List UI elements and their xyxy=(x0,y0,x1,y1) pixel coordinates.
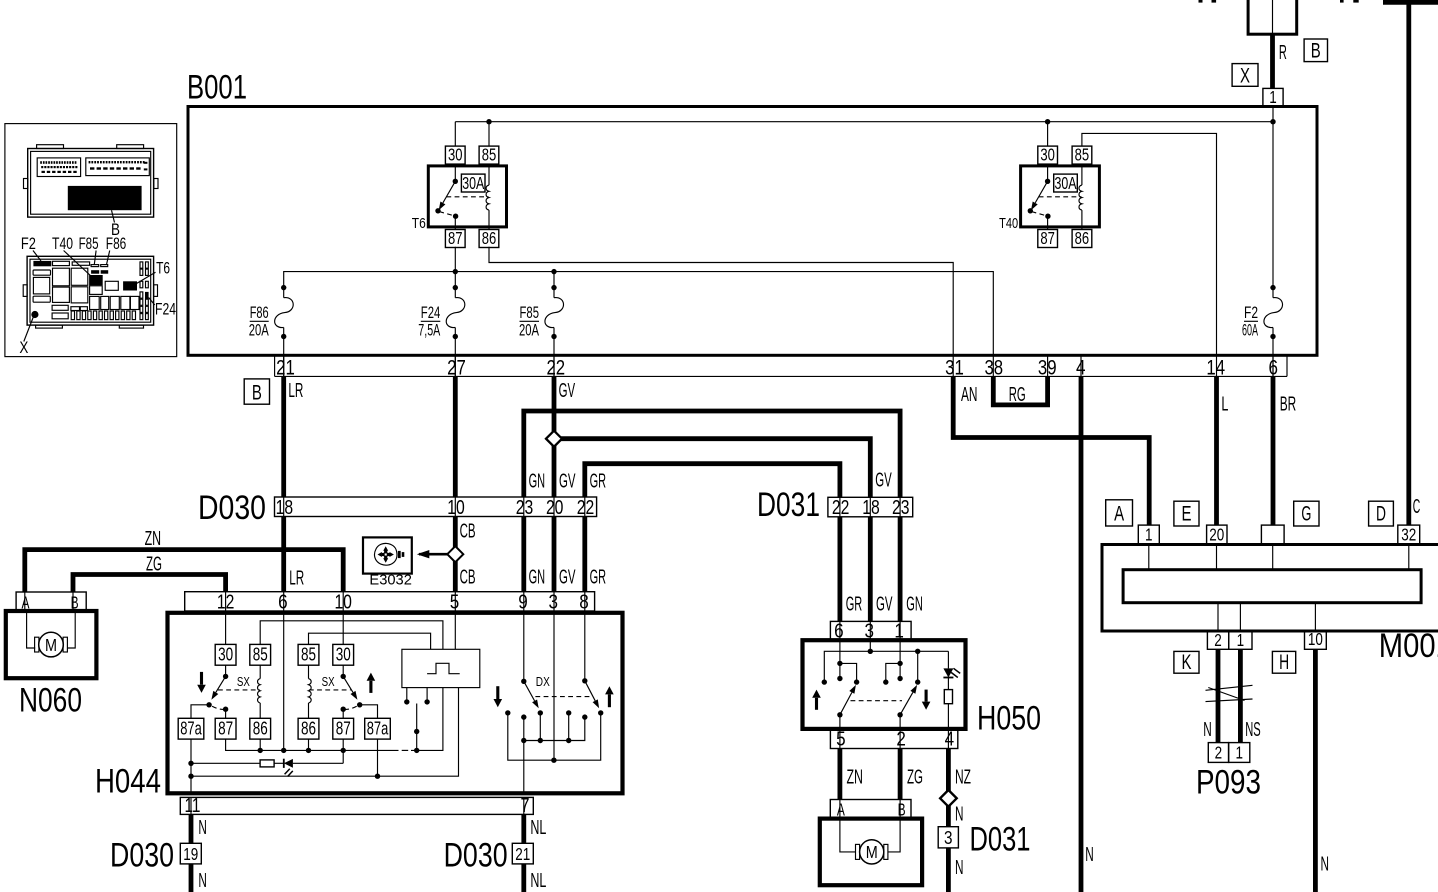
svg-text:BR: BR xyxy=(1280,393,1297,416)
fuse F2 60A xyxy=(1272,122,1274,288)
splice diamond on CB wire with arrow to E3032 xyxy=(419,553,448,556)
svg-text:85: 85 xyxy=(253,643,268,664)
relay left (SX) switch xyxy=(225,665,227,676)
svg-text:N060: N060 xyxy=(19,682,82,720)
svg-text:5: 5 xyxy=(836,727,846,750)
svg-text:10: 10 xyxy=(1308,629,1323,649)
fuse F86 20A xyxy=(283,288,285,298)
wire N: M001 pin2 to P093 xyxy=(1216,649,1221,742)
svg-text:31: 31 xyxy=(945,357,964,380)
svg-text:7: 7 xyxy=(521,794,530,817)
svg-text:NL: NL xyxy=(530,869,546,892)
svg-text:R: R xyxy=(1279,41,1287,64)
wire NL: H044 pin7 to bottom edge xyxy=(521,814,526,892)
svg-text:N: N xyxy=(1085,843,1094,866)
svg-text:19: 19 xyxy=(183,844,198,864)
B001 pin 4 xyxy=(1080,355,1082,376)
wire C from top edge down to M001 pin 32 xyxy=(1383,2,1438,525)
node: supply rail inside B001 xyxy=(455,121,1273,123)
svg-text:2: 2 xyxy=(1215,742,1223,762)
pin6 branch xyxy=(839,640,841,678)
inset: fuse box drawing xyxy=(23,256,157,328)
pin1 branch xyxy=(899,640,901,678)
svg-text:CB: CB xyxy=(460,519,476,542)
svg-text:K: K xyxy=(1182,651,1192,674)
M001 inner rectangle xyxy=(1123,570,1421,603)
D031 pin 23 xyxy=(899,497,901,517)
wire R (thick) from battery to pin 1 xyxy=(1270,34,1275,88)
DX lower bus xyxy=(508,713,601,760)
wire: H044 pin3 down to lower bus xyxy=(553,611,555,760)
motor symbol xyxy=(840,819,900,864)
down arrow (relay1) xyxy=(200,672,203,685)
svg-text:ZG: ZG xyxy=(907,765,923,788)
svg-text:30A: 30A xyxy=(1055,173,1077,193)
svg-text:A: A xyxy=(837,799,845,819)
svg-text:22: 22 xyxy=(832,496,850,519)
wire: F85 top to rail xyxy=(553,272,555,288)
svg-text:B: B xyxy=(898,799,906,819)
wire: H044 pin9 to DX pivot / through to pin7 xyxy=(523,611,525,681)
wire GV: B001 pin22 to diamond node xyxy=(552,376,557,438)
boxed label D xyxy=(1369,501,1394,526)
svg-text:10: 10 xyxy=(334,590,352,613)
svg-text:1: 1 xyxy=(1237,630,1245,650)
resistor in H044 LED row xyxy=(191,762,260,764)
pulse generator box xyxy=(402,649,480,687)
wire: T6 pin87 down to fuse rail xyxy=(454,247,456,272)
fuse F85 20A xyxy=(553,288,555,298)
svg-text:X: X xyxy=(19,339,28,357)
svg-text:T6: T6 xyxy=(156,260,170,278)
B001 pin 6 xyxy=(1272,355,1274,376)
node: fuse feed rail inside B001 xyxy=(284,272,994,356)
wire NS: M001 pin1 to P093 xyxy=(1238,649,1243,742)
svg-text:GN: GN xyxy=(906,592,923,615)
svg-text:E3032: E3032 xyxy=(369,573,412,589)
svg-text:C: C xyxy=(1413,495,1421,518)
svg-text:N: N xyxy=(955,856,964,879)
down arrow in H050 xyxy=(925,690,928,702)
svg-text:H: H xyxy=(1279,651,1289,674)
wire GN: D030 pin23 to H044 pin9 xyxy=(521,517,526,592)
svg-text:21: 21 xyxy=(276,357,295,380)
H050 bottom connector strip xyxy=(830,729,957,749)
cut-off component marks at top edge xyxy=(1199,0,1203,3)
svg-text:F86: F86 xyxy=(106,235,127,253)
connector D030 strip xyxy=(275,497,597,517)
LED diode in H044 xyxy=(274,759,343,777)
inset: T6 relay black square xyxy=(123,281,137,290)
wire: T40 pin30 up to rail (junction) xyxy=(1047,122,1049,146)
wire: pin1 to rail xyxy=(1272,106,1274,121)
splice diamond on GV wire xyxy=(546,431,562,447)
wire GN rail: D030 pin23 to D031 pin23 xyxy=(524,411,900,497)
svg-text:GV: GV xyxy=(559,565,576,588)
H050 pin 6 xyxy=(839,621,841,640)
wire: T6 pin30 up to rail xyxy=(454,122,456,146)
svg-text:87a: 87a xyxy=(367,717,389,738)
wire BR: B001 pin6 to M001 G pin xyxy=(1271,376,1276,525)
svg-text:4: 4 xyxy=(1076,357,1086,380)
D031 pin 22 xyxy=(839,497,841,517)
wire GV: D030 pin20 to H044 pin3 xyxy=(552,517,557,592)
H044 pin 5 xyxy=(454,592,456,611)
B001 pin 27 xyxy=(454,355,456,376)
svg-text:N: N xyxy=(1203,718,1212,741)
svg-text:20: 20 xyxy=(1209,524,1224,544)
boxed pin 3 with label D031 xyxy=(938,827,958,848)
wire: B001 pin27 to D030 pin10 xyxy=(453,376,458,497)
svg-text:GV: GV xyxy=(559,469,576,492)
boxed pin 1 on B001 top edge xyxy=(1263,87,1283,107)
relay left (SX) coil xyxy=(259,665,261,678)
svg-text:85: 85 xyxy=(301,643,316,664)
B001 pin 21 xyxy=(283,355,285,376)
svg-text:N: N xyxy=(1321,852,1330,875)
motor connector strip pins A B xyxy=(830,799,911,819)
junction dots on bus xyxy=(258,748,263,753)
svg-text:D031: D031 xyxy=(757,486,820,524)
D030 pin 23 xyxy=(523,497,525,517)
D030 pin 10 xyxy=(454,497,456,517)
svg-text:L: L xyxy=(1221,393,1228,416)
svg-text:F85: F85 xyxy=(520,304,540,322)
svg-text:87: 87 xyxy=(1040,228,1055,248)
svg-text:22: 22 xyxy=(577,496,595,519)
svg-text:87a: 87a xyxy=(180,717,202,738)
svg-text:6: 6 xyxy=(278,590,288,613)
inset: T40 relay black square xyxy=(89,275,103,285)
H044 pin 10 xyxy=(342,592,344,611)
H050 pin 3 xyxy=(869,621,871,640)
wire GR rail: D030 pin22 to D031 pin22 xyxy=(585,464,840,498)
internal bus (86/87 commons) xyxy=(226,739,399,750)
svg-text:N: N xyxy=(198,869,207,892)
boxed label H xyxy=(1272,651,1295,674)
svg-text:AN: AN xyxy=(961,383,978,406)
P093 pin boxes 2 1 xyxy=(1208,742,1249,762)
svg-text:NL: NL xyxy=(530,816,546,839)
wire: relay1 85 to pulse box xyxy=(260,621,443,650)
svg-text:3: 3 xyxy=(548,590,558,613)
resistor in H050 xyxy=(944,678,952,729)
boxed label X xyxy=(1232,64,1258,88)
D030 pin 20 xyxy=(553,497,555,517)
svg-text:B001: B001 xyxy=(187,69,247,107)
boxed label E xyxy=(1174,501,1199,526)
svg-text:GV: GV xyxy=(559,379,576,402)
LED in H050 xyxy=(943,668,960,677)
svg-text:N: N xyxy=(198,816,207,839)
wire ZG: N060 pinB to H044 pin12 xyxy=(73,575,226,593)
inset frame (B001 pictorial) xyxy=(5,124,177,357)
D030 pin 18 xyxy=(283,497,285,517)
wire: H044 pin8 to DX pivot xyxy=(584,611,586,681)
svg-text:3: 3 xyxy=(944,827,953,848)
inset: body computer device drawing xyxy=(24,145,159,239)
wire: 86 boxes to bus xyxy=(259,739,261,750)
motor N060 box xyxy=(6,611,97,678)
wire GV: diamond down to D030 pin20 xyxy=(552,439,557,497)
B001 bottom connector strip xyxy=(275,355,1287,376)
switch unit H050 box xyxy=(803,640,966,729)
H044 pin 8 xyxy=(584,592,586,611)
B001 pin 22 xyxy=(553,355,555,376)
svg-text:20A: 20A xyxy=(249,322,269,340)
B001 pin 14 xyxy=(1216,355,1218,376)
svg-text:F2: F2 xyxy=(1244,304,1258,322)
svg-text:2: 2 xyxy=(896,727,906,750)
junction dot rail/F2/pin1 xyxy=(1270,119,1275,124)
svg-text:38: 38 xyxy=(984,357,1003,380)
H050 pin 4 xyxy=(947,729,949,749)
svg-text:G: G xyxy=(1301,503,1311,526)
H050 switch arms xyxy=(837,685,917,718)
svg-text:87: 87 xyxy=(218,717,233,738)
svg-text:ZN: ZN xyxy=(145,527,162,550)
battery/junction box top right xyxy=(1248,0,1297,34)
key symbol E3032 xyxy=(363,537,412,573)
M001 pin box 1 xyxy=(1138,525,1159,544)
wire: relay2 85 to pulse box xyxy=(309,633,431,649)
svg-text:14: 14 xyxy=(1206,357,1225,380)
M001 pin box 10 bottom xyxy=(1305,631,1327,649)
svg-text:F85: F85 xyxy=(79,235,99,253)
svg-text:8: 8 xyxy=(579,590,589,613)
svg-text:F24: F24 xyxy=(155,301,176,319)
DX bus to pin7 xyxy=(524,717,585,740)
svg-text:30: 30 xyxy=(218,643,233,664)
svg-text:39: 39 xyxy=(1038,357,1057,380)
H044 pin 12 xyxy=(225,592,227,611)
wire: H044 pin6 down to internal bus xyxy=(283,611,285,750)
svg-text:F24: F24 xyxy=(421,304,441,322)
svg-text:ZG: ZG xyxy=(146,553,162,576)
svg-text:GR: GR xyxy=(846,592,863,615)
svg-text:9: 9 xyxy=(518,590,528,613)
svg-text:H050: H050 xyxy=(977,700,1041,738)
svg-text:T40: T40 xyxy=(999,215,1018,232)
svg-text:M: M xyxy=(45,635,57,655)
motor symbol in N060 xyxy=(27,611,76,657)
svg-text:GN: GN xyxy=(529,565,546,588)
wire ZN: N060 pinA to H044 pin10 xyxy=(25,550,343,592)
wire AN: B001 pin31 to M001 pin1 xyxy=(953,376,1149,525)
B001 pin 38 xyxy=(992,355,994,376)
svg-text:22: 22 xyxy=(546,357,565,380)
svg-text:20: 20 xyxy=(546,496,564,519)
svg-text:B: B xyxy=(1311,40,1321,63)
wire N: B001 pin4 to bottom edge xyxy=(1079,376,1084,892)
svg-text:B: B xyxy=(252,381,262,404)
twisted pair symbol xyxy=(1206,685,1253,701)
svg-text:21: 21 xyxy=(515,844,530,864)
wire NZ: H050 pin4 to bottom edge xyxy=(946,749,951,892)
wire ZG: H050 pin2 to motor pinB xyxy=(898,749,903,800)
svg-text:23: 23 xyxy=(892,496,910,519)
fuse box B001 outline xyxy=(188,107,1317,356)
B001 pin 39 xyxy=(1047,355,1049,376)
connector D031 strip xyxy=(828,497,913,517)
svg-text:30: 30 xyxy=(448,145,463,165)
wiper motor box xyxy=(820,819,922,886)
svg-text:86: 86 xyxy=(301,717,316,738)
H044 internal relay left (SX) pin boxes xyxy=(215,644,236,665)
DX switch arms xyxy=(521,678,599,708)
H050 top connector strip xyxy=(830,621,911,640)
svg-text:87: 87 xyxy=(336,717,351,738)
inset: black label area with leader to B xyxy=(68,186,142,210)
svg-text:2: 2 xyxy=(1214,630,1222,650)
D030 pin 22 xyxy=(584,497,586,517)
wire: pin3 to rail xyxy=(869,640,871,651)
svg-text:D030: D030 xyxy=(110,837,174,875)
wire: 87a boxes down xyxy=(190,739,192,793)
relay T6 in B001 xyxy=(412,145,507,248)
svg-text:D030: D030 xyxy=(198,489,266,527)
svg-text:6: 6 xyxy=(1268,357,1278,380)
H044 bottom connector strip xyxy=(180,797,533,814)
boxed label K xyxy=(1174,651,1199,674)
svg-text:H044: H044 xyxy=(95,763,161,801)
svg-text:87: 87 xyxy=(448,228,463,248)
svg-text:NS: NS xyxy=(1245,718,1261,741)
DX contact dots xyxy=(505,710,510,715)
H044 top connector strip xyxy=(185,592,595,611)
H050 pin 5 xyxy=(839,729,841,749)
svg-text:A: A xyxy=(1114,503,1124,526)
svg-text:GR: GR xyxy=(590,469,607,492)
inset: X ground point xyxy=(31,311,38,318)
svg-text:GN: GN xyxy=(529,469,546,492)
svg-text:20A: 20A xyxy=(519,322,539,340)
svg-text:12: 12 xyxy=(217,590,235,613)
D031 pin 18 xyxy=(869,497,871,517)
svg-text:GR: GR xyxy=(590,565,607,588)
boxed label G xyxy=(1294,501,1319,526)
relay T40 in B001 xyxy=(999,145,1099,248)
wire GN: D031 pin23 to H050 pin1 xyxy=(898,517,903,622)
control unit H044 box xyxy=(168,613,623,794)
wire: relay2 87 down through bus to LED row xyxy=(342,739,344,763)
H044 pin 3 xyxy=(553,592,555,611)
boxed label B (harness) xyxy=(244,379,269,404)
svg-text:RG: RG xyxy=(1009,383,1026,406)
wire N: H044 pin11 to bottom edge xyxy=(189,814,194,892)
H044 pin 11 xyxy=(190,797,192,814)
svg-text:T6: T6 xyxy=(412,215,426,232)
boxed label B xyxy=(1304,39,1327,63)
svg-text:P093: P093 xyxy=(1196,764,1261,802)
inset labels and leader lines xyxy=(19,235,176,357)
wire GV rail: diamond to D031 pin18 xyxy=(554,439,870,498)
down arrow (DX) xyxy=(496,686,499,699)
svg-text:4: 4 xyxy=(945,727,955,750)
pulse box lower-left contacts xyxy=(404,688,430,751)
svg-text:1: 1 xyxy=(1235,742,1243,762)
svg-text:85: 85 xyxy=(1075,145,1090,165)
M001 pin boxes 2 1 bottom xyxy=(1207,630,1252,650)
wire LR: B001 pin21 to D030 pin18 xyxy=(281,376,286,497)
H050 pin 1 xyxy=(899,621,901,640)
boxed label A xyxy=(1106,500,1133,526)
svg-text:60A: 60A xyxy=(1242,322,1258,340)
H044 internal relay right (SX) pin boxes xyxy=(333,644,354,665)
svg-text:SX: SX xyxy=(237,674,250,689)
wire CB: D030 pin10 to H044 pin5 xyxy=(453,517,458,592)
svg-text:18: 18 xyxy=(276,496,294,519)
relay right (SX) switch xyxy=(342,665,344,676)
M001 internal pin stubs top xyxy=(1148,545,1150,570)
svg-text:GV: GV xyxy=(875,468,892,491)
svg-text:30: 30 xyxy=(1040,145,1055,165)
wire GR: D031 pin22 to H050 pin6 xyxy=(838,517,843,622)
svg-text:30A: 30A xyxy=(462,173,484,193)
svg-text:F86: F86 xyxy=(250,304,269,322)
H044 pin 6 xyxy=(283,592,285,611)
up arrow (DX) xyxy=(608,694,611,707)
svg-text:NZ: NZ xyxy=(955,765,971,788)
svg-text:5: 5 xyxy=(450,590,460,613)
wire: T6 pin85 up to rail (junction) xyxy=(488,122,490,146)
relay right (SX) coil xyxy=(308,665,310,678)
svg-text:D: D xyxy=(1376,503,1386,526)
wire: H044 pin10 to relay2 30 xyxy=(342,611,344,644)
svg-text:1: 1 xyxy=(1269,87,1277,107)
wire GR: D030 pin22 to H044 pin8 xyxy=(582,517,587,592)
wire: T6 pin86 to B001 pin 31 xyxy=(489,247,953,355)
M001 pin box 32 xyxy=(1398,525,1420,544)
wires pivots to pins 5,2 xyxy=(839,715,841,729)
svg-text:32: 32 xyxy=(1401,524,1416,544)
svg-text:23: 23 xyxy=(516,496,534,519)
svg-text:F2: F2 xyxy=(21,235,36,253)
svg-text:86: 86 xyxy=(253,717,268,738)
svg-text:E: E xyxy=(1182,503,1192,526)
svg-text:86: 86 xyxy=(1075,228,1090,248)
H050 internal rail xyxy=(824,651,948,682)
wire: H044 pin12 to relay1 30 xyxy=(225,611,227,644)
svg-text:18: 18 xyxy=(862,496,880,519)
svg-text:85: 85 xyxy=(482,145,497,165)
svg-text:11: 11 xyxy=(185,794,201,817)
H050 pin 2 xyxy=(899,729,901,749)
svg-text:30: 30 xyxy=(336,643,351,664)
wire: T40 pin85 to B001 pin 14 xyxy=(1082,133,1217,355)
H044 pin 7 xyxy=(523,797,525,814)
svg-text:X: X xyxy=(1240,64,1250,87)
wire LR: D030 pin18 to H044 pin6 xyxy=(281,517,286,592)
svg-text:ZN: ZN xyxy=(847,765,864,788)
svg-text:SX: SX xyxy=(322,674,335,689)
H044 pin 9 xyxy=(523,592,525,611)
wire ZN: H050 pin5 to motor pinA xyxy=(838,749,843,800)
wire L: B001 pin14 to M001 pin20 xyxy=(1214,376,1219,525)
wire GV: D031 pin18 to H050 pin3 xyxy=(868,517,873,622)
svg-text:27: 27 xyxy=(447,357,466,380)
svg-text:GV: GV xyxy=(876,592,893,615)
M001 internal pin stubs bottom xyxy=(1217,603,1219,631)
svg-text:1: 1 xyxy=(1145,524,1153,544)
up arrow (relay2) xyxy=(369,681,372,693)
rail branch to right contact xyxy=(917,651,919,682)
M001 pin box 20 xyxy=(1207,525,1227,544)
svg-text:T40: T40 xyxy=(52,235,73,253)
lower return row xyxy=(191,688,459,777)
svg-text:CB: CB xyxy=(460,565,476,588)
splice diamond on NZ wire xyxy=(940,790,957,807)
